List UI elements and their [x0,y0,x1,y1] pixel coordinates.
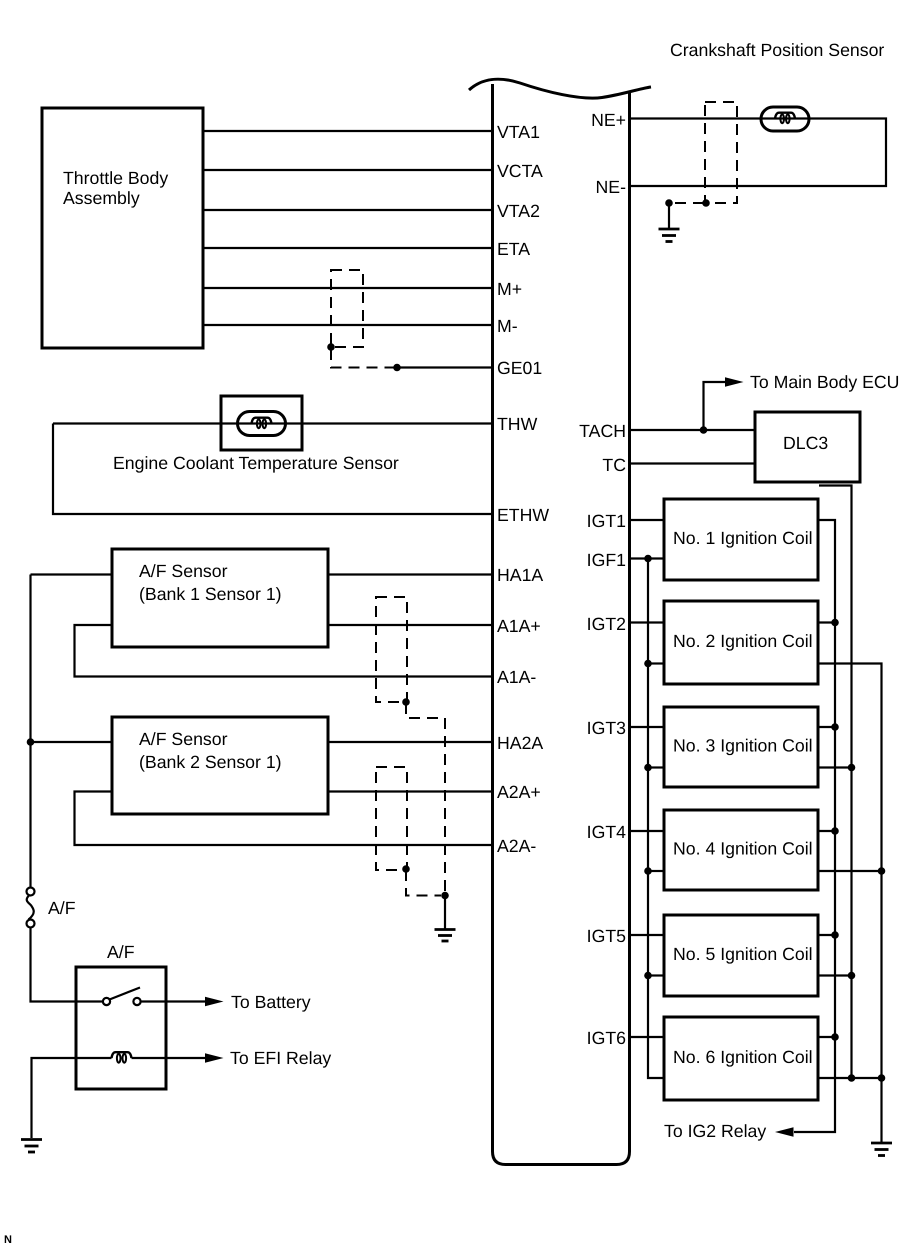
junction [644,555,652,563]
wire shield A2A drop [406,870,441,896]
svg-text:To IG2 Relay: To IG2 Relay [664,1121,766,1141]
wire HA2A left [31,741,113,743]
wire to main body ecu [704,382,727,430]
svg-text:Assembly: Assembly [63,188,140,208]
svg-text:IGT3: IGT3 [587,718,626,738]
svg-text:(Bank 2 Sensor 1): (Bank 2 Sensor 1) [139,752,282,772]
wire TC [630,462,755,464]
wire c6 bottom right [818,1077,882,1079]
svg-text:TACH: TACH [579,421,626,441]
svg-text:VTA2: VTA2 [497,201,540,221]
svg-text:IGT1: IGT1 [587,511,626,531]
wire IGF1 [630,557,664,559]
junction [831,827,839,835]
junction [878,867,886,875]
junction [644,764,652,772]
arrow battery [205,997,224,1007]
wire VTA1 [203,130,492,132]
wire c5 bottom right [818,974,852,976]
junction [848,972,856,980]
engine coolant temperature sensor box [113,396,399,473]
arrow EFI [205,1053,224,1063]
A/F sensor bank2 box [112,717,328,814]
wire A2A- loop [75,792,493,846]
junction [402,865,410,873]
ECM top break line [469,79,651,98]
svg-text:A1A+: A1A+ [497,616,541,636]
wire IGT4 [630,830,664,832]
ground relay coil [21,1140,42,1153]
wire c4 top right [818,830,835,832]
junction [644,972,652,980]
wire VCTA [203,169,492,171]
no.6 ignition coil box [664,1017,818,1100]
arrow IG2 [775,1127,794,1137]
no.2 ignition coil box [664,601,818,684]
wire fuse to relay [31,928,104,1002]
wire IGT1 [630,519,664,521]
junction [878,1074,886,1082]
wire coil inside [132,1057,167,1059]
no.1 ignition coil box [664,499,818,580]
svg-text:A2A-: A2A- [497,836,536,856]
ground crankshaft [659,229,680,242]
wire to ground [444,896,446,930]
svg-text:A/F Sensor: A/F Sensor [139,729,228,749]
junction [831,619,839,627]
wire TACH [630,429,755,431]
svg-text:Throttle Body: Throttle Body [63,168,168,188]
wire IGT5 [630,934,664,936]
wire IGF bus [648,559,664,1079]
junction [665,199,673,207]
wire ECT loop [53,424,492,515]
svg-text:THW: THW [497,414,538,434]
wire c5 top right [818,934,835,936]
shield NE dashed [705,102,737,203]
wire IGF c4 [648,870,664,872]
relay contact [103,988,141,1006]
no.3 ignition coil box [664,707,818,787]
svg-text:GE01: GE01 [497,358,542,378]
svg-text:Crankshaft Position Sensor: Crankshaft Position Sensor [670,40,884,60]
svg-text:TC: TC [602,455,626,475]
wire M- [203,324,492,326]
wire IG2 bus [794,520,835,1132]
svg-text:No. 3 Ignition Coil: No. 3 Ignition Coil [673,736,813,756]
svg-text:To EFI Relay: To EFI Relay [230,1048,331,1068]
svg-text:N: N [4,1234,12,1246]
wire NE+ [630,119,886,187]
svg-text:To Battery: To Battery [231,992,311,1012]
wire coil left [32,1058,112,1138]
svg-text:NE+: NE+ [591,110,626,130]
thermistor element [238,412,286,436]
svg-text:A1A-: A1A- [497,667,536,687]
ECM main box [493,84,630,1165]
ground coils [871,1143,892,1156]
junction [402,698,410,706]
svg-text:No. 1 Ignition Coil: No. 1 Ignition Coil [673,528,813,548]
svg-text:A/F: A/F [48,898,76,918]
wire to battery [141,1000,207,1002]
junction [644,660,652,668]
svg-text:VCTA: VCTA [497,161,543,181]
svg-text:HA1A: HA1A [497,565,543,585]
junction [831,723,839,731]
svg-text:M+: M+ [497,279,522,299]
wire HA2A [328,741,492,743]
svg-text:NE-: NE- [596,177,627,197]
fuse A/F [27,888,76,928]
arrow main body [725,377,744,387]
wire IGT6 [630,1036,664,1038]
wire IGF c5 [648,974,664,976]
wire c2 bottom right [818,664,882,1144]
junction [831,1033,839,1041]
wire AF supply vertical [29,575,31,889]
svg-text:No. 5 Ignition Coil: No. 5 Ignition Coil [673,944,813,964]
wire shield NE link [669,202,704,204]
svg-text:ETA: ETA [497,239,530,259]
wire to ground [668,203,670,229]
wire A1A+ [328,624,492,626]
junction [848,764,856,772]
svg-text:HA2A: HA2A [497,733,543,753]
wire IGT2 [630,621,664,623]
junction [700,426,708,434]
wire IGF c2 [648,662,664,664]
svg-text:VTA1: VTA1 [497,122,540,142]
throttle body assembly box [42,108,203,348]
no.5 ignition coil box [664,915,818,996]
junction [327,343,335,351]
wire ETA [203,247,492,249]
junction [848,1074,856,1082]
svg-text:To Main Body ECU: To Main Body ECU [750,372,899,392]
svg-text:No. 4 Ignition Coil: No. 4 Ignition Coil [673,839,813,859]
wire shield to GE01 [331,349,397,368]
svg-text:IGT4: IGT4 [587,822,626,842]
wire to EFI relay [166,1057,206,1059]
svg-text:Engine Coolant Temperature Sen: Engine Coolant Temperature Sensor [113,453,399,473]
shield A2A dashed [376,767,407,870]
relay coil [112,1052,132,1063]
svg-text:A/F Sensor: A/F Sensor [139,561,228,581]
wire HA1A left [31,573,113,575]
wire A1A- loop [75,625,493,677]
shield A1A dashed [376,597,407,702]
relay A/F box [76,942,166,1089]
wire shield A1A drop [406,703,445,718]
wire shield bus dashed [444,718,446,896]
pickup coil element [761,107,809,131]
svg-text:IGT6: IGT6 [587,1028,626,1048]
ground shield [435,930,456,942]
wire VTA2 [203,209,492,211]
wire c2 top right [818,621,835,623]
junction [702,199,710,207]
wire c3 bottom right [818,766,852,768]
junction [644,867,652,875]
svg-text:ETHW: ETHW [497,505,549,525]
wire c4 bottom right [818,870,882,872]
junction [441,892,449,900]
wire c6 top right [818,1036,835,1038]
no.4 ignition coil box [664,810,818,890]
svg-text:IGT2: IGT2 [587,614,626,634]
wire GE01 [397,366,492,368]
wire HA1A [328,573,492,575]
junction [393,364,401,372]
wire M+ [203,287,492,289]
svg-text:No. 6 Ignition Coil: No. 6 Ignition Coil [673,1047,813,1067]
wire DLC3 stub [819,486,852,1079]
junction [831,931,839,939]
svg-text:IGF1: IGF1 [587,550,626,570]
DLC3 box [755,412,860,482]
svg-text:(Bank 1 Sensor 1): (Bank 1 Sensor 1) [139,584,282,604]
junction [27,738,35,746]
svg-text:A/F: A/F [107,942,135,962]
A/F sensor bank1 box [112,549,328,647]
shield M dashed [331,270,363,347]
wire IGF c3 [648,766,664,768]
svg-text:IGT5: IGT5 [587,926,626,946]
wire IGT3 [630,726,664,728]
wire THW [53,422,492,424]
svg-text:A2A+: A2A+ [497,782,541,802]
wire c3 top right [818,726,835,728]
svg-text:M-: M- [497,316,518,336]
wire A2A+ [328,790,492,792]
svg-text:DLC3: DLC3 [783,433,828,453]
svg-text:No. 2 Ignition Coil: No. 2 Ignition Coil [673,631,813,651]
